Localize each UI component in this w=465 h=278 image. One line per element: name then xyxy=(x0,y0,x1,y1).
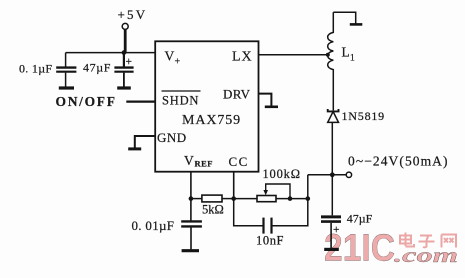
svg-text:GND: GND xyxy=(157,130,187,145)
svg-text:DRV: DRV xyxy=(223,87,251,102)
IC U1 MAX759 xyxy=(155,41,258,171)
wire CC node to 100k xyxy=(234,198,257,200)
wire ON/OFF to SHDN xyxy=(126,100,155,102)
wire output rail xyxy=(308,174,346,176)
wire +5V drop xyxy=(124,30,127,54)
wire VREF pin down xyxy=(190,172,192,221)
wire LX to inductor xyxy=(259,54,330,56)
ground (47uF input) xyxy=(117,86,131,89)
svg-text:47µF: 47µF xyxy=(83,60,111,74)
svg-text:+: + xyxy=(126,56,133,68)
node V+ rail junction xyxy=(122,50,127,55)
svg-text:47µF: 47µF xyxy=(347,212,373,226)
wire 100k to right node xyxy=(276,198,308,200)
wire right node up to output rail xyxy=(307,175,309,199)
svg-text:1N5819: 1N5819 xyxy=(342,109,385,123)
电 xyxy=(400,233,414,247)
svg-text:+: + xyxy=(333,224,340,236)
wire right node down to 10nF branch xyxy=(272,199,308,226)
diode 1N5819 xyxy=(328,109,385,123)
watermark 21IC.com 电子网 logo xyxy=(324,228,458,270)
svg-text:1: 1 xyxy=(350,54,355,64)
svg-text:SHDN: SHDN xyxy=(162,94,199,108)
wire DRV pin stub xyxy=(259,94,272,106)
terminal output xyxy=(346,172,351,177)
inductor L1 xyxy=(328,12,355,110)
wire top rail to V+ xyxy=(66,52,156,54)
svg-text:L: L xyxy=(342,45,350,60)
wire CC pin down xyxy=(233,172,235,199)
svg-text:+: + xyxy=(175,57,181,68)
capacitor 10nF xyxy=(256,218,284,248)
svg-text:ON/OFF: ON/OFF xyxy=(56,94,117,109)
svg-text:+5V: +5V xyxy=(118,7,148,22)
svg-text:0. 1µF: 0. 1µF xyxy=(19,61,52,75)
node CC junction xyxy=(231,196,236,201)
resistor 5kOhm xyxy=(202,195,224,216)
svg-text:V: V xyxy=(165,49,175,64)
svg-text:100kΩ: 100kΩ xyxy=(263,167,301,181)
ground (0.01uF) xyxy=(182,249,199,252)
wire 5k to CC node xyxy=(222,198,234,200)
svg-text:LX: LX xyxy=(232,50,253,65)
wire CC node down to 10nF branch xyxy=(234,199,264,226)
capacitor 47uF input xyxy=(83,53,134,87)
网 xyxy=(442,235,457,248)
node output junction xyxy=(330,172,335,177)
svg-text:REF: REF xyxy=(195,159,214,169)
svg-text:MAX759: MAX759 xyxy=(182,113,241,128)
子 xyxy=(419,236,435,248)
capacitor 0.1uF xyxy=(19,53,76,87)
node right junction xyxy=(306,196,311,201)
svg-text:0~−24V(50mA): 0~−24V(50mA) xyxy=(348,154,448,169)
svg-text:5kΩ: 5kΩ xyxy=(202,203,224,217)
potentiometer 100kOhm xyxy=(257,167,301,202)
terminal +5V xyxy=(118,7,148,30)
svg-text:CC: CC xyxy=(229,154,249,169)
svg-text:0. 01µF: 0. 01µF xyxy=(132,218,175,233)
ground (47uF output) xyxy=(324,248,339,251)
ground (DRV pin) xyxy=(265,106,278,109)
wire VREF node to 5k xyxy=(191,198,202,200)
svg-text:V: V xyxy=(184,153,194,168)
wire coil top to ground xyxy=(333,12,355,23)
node wiper junction xyxy=(288,196,293,201)
svg-text:10nF: 10nF xyxy=(256,233,284,247)
capacitor 0.01uF xyxy=(132,218,202,250)
node VREF junction xyxy=(189,196,194,201)
wire GND pin stub xyxy=(135,136,155,148)
wire diode to output rail xyxy=(331,122,333,215)
ground (0.1uF) xyxy=(59,86,74,89)
capacitor 47uF output xyxy=(321,212,373,249)
ground (coil top) xyxy=(350,23,363,26)
node LX/coil junction xyxy=(326,53,330,57)
ground (GND pin) xyxy=(128,147,141,150)
